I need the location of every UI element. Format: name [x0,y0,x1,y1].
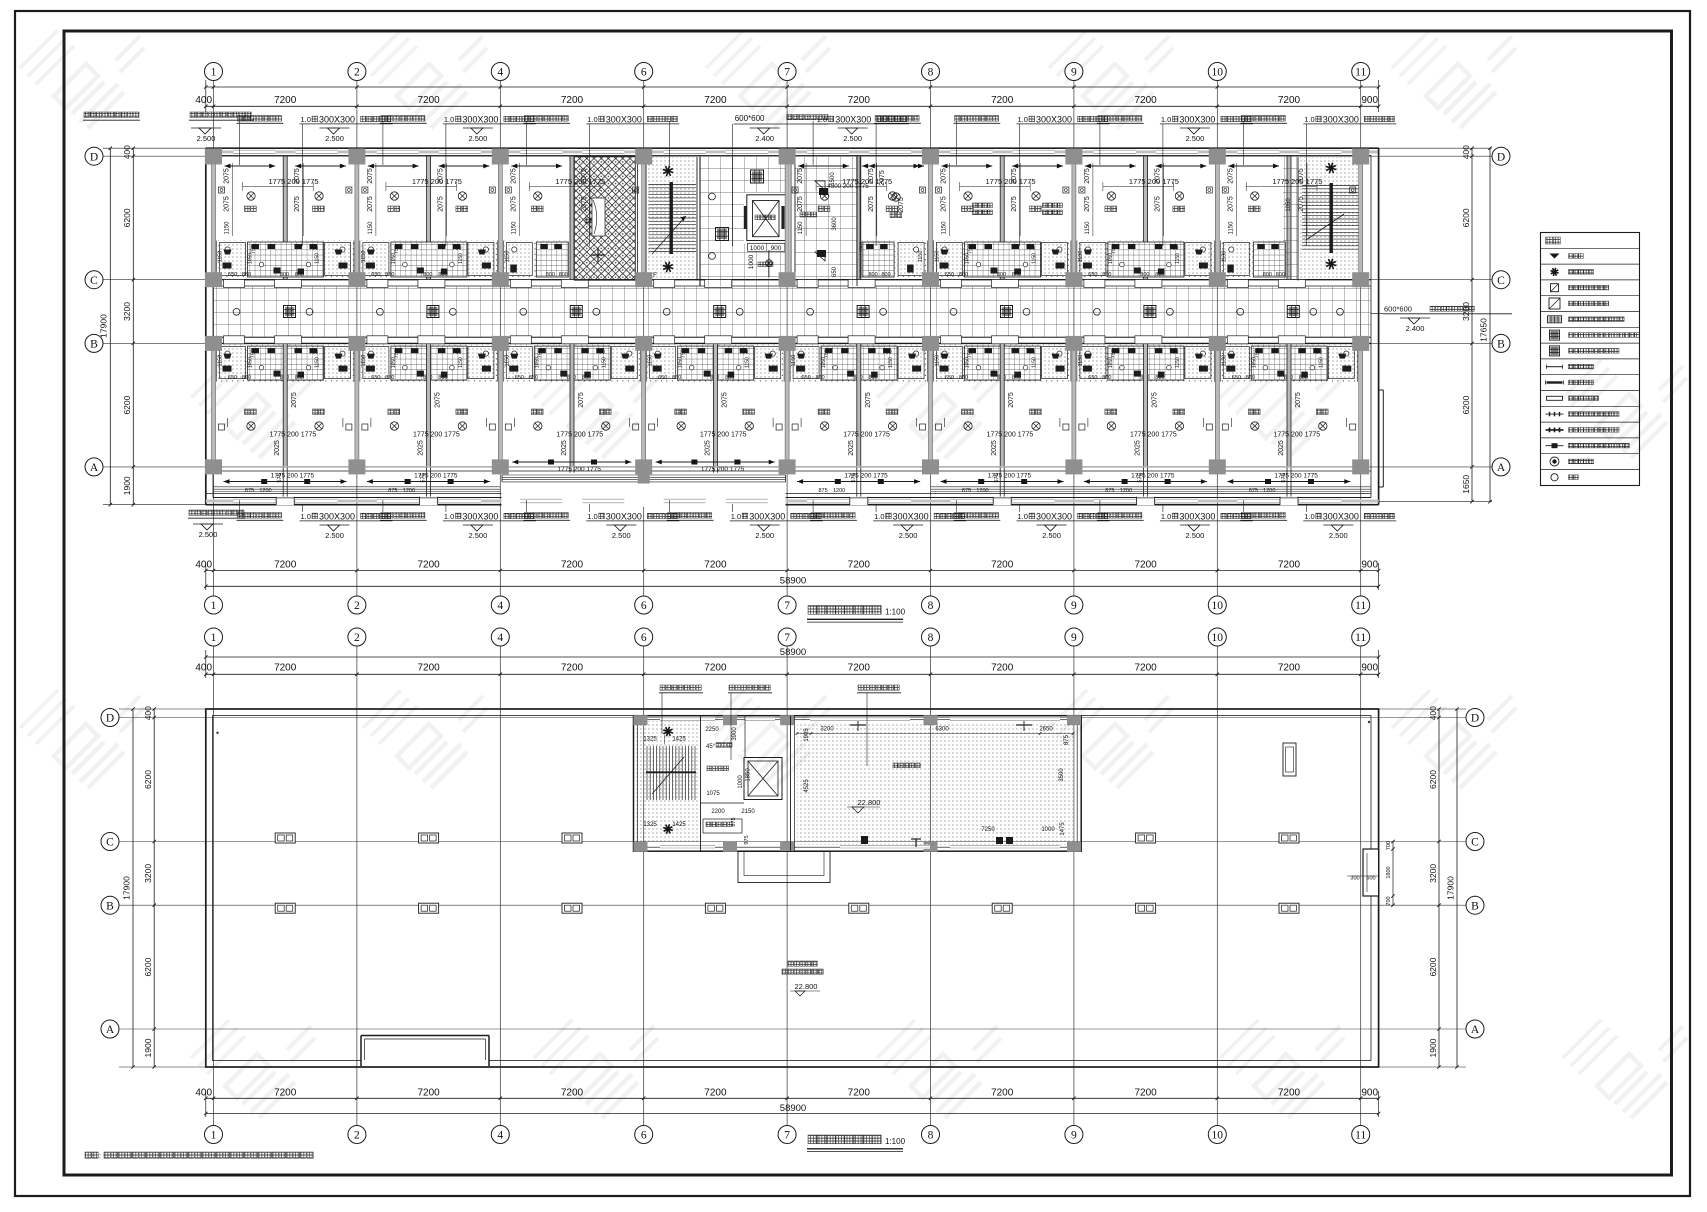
legend row 4 [1549,298,1560,309]
top band bay 7-8: laundry tiles + room [795,157,857,286]
svg-text:2025: 2025 [274,440,281,456]
legend table [1541,233,1640,486]
svg-text:6: 6 [641,632,647,644]
svg-text:11: 11 [1355,600,1366,612]
svg-text:11: 11 [1355,1130,1366,1142]
svg-text:800: 800 [1263,272,1272,278]
svg-text:600*600: 600*600 [735,114,765,123]
bottom room divider wall [857,344,861,466]
balcony dividers and dims [1286,468,1288,498]
svg-text:1.0: 1.0 [1304,115,1314,124]
svg-text:200 1775: 200 1775 [429,473,458,480]
svg-text:875: 875 [245,488,254,494]
room divider wall [427,157,431,280]
svg-text:7200: 7200 [417,95,440,106]
svg-text:2.500: 2.500 [612,531,631,540]
stair treads [649,184,697,186]
balcony dividers and dims [282,468,284,498]
room divider wall [857,157,861,280]
svg-text:2025: 2025 [991,440,998,456]
svg-text:1150: 1150 [218,251,224,263]
top plan right wall step [1379,389,1384,391]
svg-text:8: 8 [928,632,934,644]
svg-text:800: 800 [295,272,304,278]
penthouse big room (roofed hall) [797,722,1073,845]
svg-text:800: 800 [1012,375,1021,381]
svg-text:750: 750 [1169,350,1178,356]
svg-text:875: 875 [962,488,971,494]
svg-text:650: 650 [945,375,954,381]
svg-text:1150: 1150 [218,355,224,367]
svg-text:2025: 2025 [1278,440,1285,456]
bottom room divider wall [570,344,574,466]
svg-text:2075: 2075 [1011,168,1018,184]
svg-text:1.0: 1.0 [301,115,311,124]
svg-text:1150: 1150 [745,357,751,368]
svg-text:1.0: 1.0 [444,512,454,521]
svg-text:575: 575 [277,473,283,482]
svg-text:1200: 1200 [1120,488,1132,494]
svg-text:1150: 1150 [504,251,510,263]
svg-text:2075: 2075 [1295,392,1302,408]
room lamps [820,192,828,200]
svg-text:D: D [106,713,114,725]
svg-text:200 1775: 200 1775 [1002,473,1031,480]
svg-text:B: B [106,900,114,912]
svg-text:A: A [90,462,99,474]
svg-text:200 1775: 200 1775 [285,177,318,186]
svg-text:2250: 2250 [705,727,719,733]
room ceiling arrows [225,165,276,167]
svg-text:3600: 3600 [832,217,838,231]
svg-text:300X300: 300X300 [1036,114,1072,124]
svg-text:D: D [1497,151,1505,163]
corridor door openings [224,280,245,288]
title: floors 3-6 ceiling plan [808,606,881,615]
penthouse stairwell [636,721,698,844]
svg-text:1.0: 1.0 [1304,512,1314,521]
svg-text:1150: 1150 [1085,221,1091,235]
svg-text:400: 400 [1428,706,1438,720]
svg-text:300X300: 300X300 [1179,511,1215,521]
legend row 14 [1550,457,1559,466]
svg-text:C: C [1471,837,1479,849]
room lamps [534,192,542,200]
bay 7-8 right half room [892,193,900,201]
bottom room divider wall [713,344,717,466]
svg-text:3500: 3500 [1059,768,1065,782]
svg-text:1200: 1200 [833,488,845,494]
svg-text:2650: 2650 [1039,727,1053,733]
svg-text:200 1775: 200 1775 [1146,432,1177,439]
svg-text:750: 750 [251,245,257,254]
bottom room lamps and dims [247,422,255,430]
svg-text:3200: 3200 [820,727,834,733]
svg-text:200 1775: 200 1775 [1002,177,1035,186]
svg-text:1150: 1150 [1318,357,1324,368]
svg-text:7250: 7250 [981,827,995,833]
svg-text:7200: 7200 [417,663,440,674]
svg-text:7200: 7200 [274,95,297,106]
svg-text:7: 7 [784,67,790,79]
svg-text:860: 860 [385,375,394,381]
svg-text:200 1775: 200 1775 [1146,177,1179,186]
leader vertical lines top labels [239,121,241,165]
penthouse canopy below [738,852,830,883]
svg-text:1150: 1150 [601,357,607,368]
svg-text:750: 750 [968,245,974,254]
svg-text:2075: 2075 [294,168,301,184]
svg-text:2025: 2025 [561,440,568,456]
svg-text:2075: 2075 [1155,168,1162,184]
svg-text:750: 750 [883,350,892,356]
svg-text:800: 800 [438,375,447,381]
svg-text:1: 1 [211,67,217,79]
svg-text:45°: 45° [706,744,716,750]
svg-text:1.0: 1.0 [444,115,454,124]
svg-text:2: 2 [354,1130,360,1142]
svg-text:750: 750 [309,246,318,252]
svg-text:4500 200 1775: 4500 200 1775 [827,183,869,190]
svg-text::: : [99,1153,101,1160]
svg-text:200 1775: 200 1775 [715,466,744,473]
top plan top dim chain segment line [206,105,1379,107]
svg-text:800: 800 [869,272,878,278]
svg-text:650: 650 [658,375,667,381]
svg-text:7200: 7200 [417,1087,440,1098]
svg-text:2025: 2025 [1135,440,1142,456]
svg-text:875: 875 [1105,488,1114,494]
svg-text:2075: 2075 [294,196,301,212]
svg-text:7200: 7200 [848,95,871,106]
bottom room divider wall [1287,344,1291,466]
svg-text:A: A [1497,462,1506,474]
svg-text:750: 750 [1026,246,1035,252]
corridor light fixtures [284,306,296,318]
svg-text:860: 860 [1102,272,1111,278]
svg-text:7200: 7200 [991,95,1014,106]
svg-text:575: 575 [1281,473,1287,482]
legend row 3 [1551,284,1559,292]
svg-text:7200: 7200 [561,560,584,571]
svg-text:1775: 1775 [556,432,572,439]
svg-text:1775: 1775 [1273,432,1289,439]
svg-text:10: 10 [1212,600,1224,612]
svg-text:17900: 17900 [99,314,109,338]
door-side fixtures [219,187,225,193]
svg-text:2: 2 [354,632,360,644]
lobby fixtures [751,170,764,183]
watermark tiles [20,30,144,128]
svg-text:200 1775: 200 1775 [285,473,314,480]
svg-text:6200: 6200 [143,957,153,976]
svg-text:2075: 2075 [1084,168,1091,184]
leader labels above penthouse [660,685,701,690]
svg-text:900: 900 [1361,663,1378,674]
svg-text:200 1775: 200 1775 [715,432,746,439]
room lamps [964,192,972,200]
svg-text:7200: 7200 [274,663,297,674]
svg-text:7200: 7200 [991,663,1014,674]
svg-text:2075: 2075 [367,196,374,212]
svg-text:750: 750 [739,350,748,356]
balcony rail lines [206,493,1371,495]
svg-text:1: 1 [211,1130,217,1142]
svg-text:7200: 7200 [417,560,440,571]
svg-text:300X300: 300X300 [1323,114,1359,124]
svg-text:6: 6 [641,1130,647,1142]
svg-text:860: 860 [959,272,968,278]
balcony step notches [276,497,294,506]
svg-text:575: 575 [421,473,427,482]
top plan top dim chain total line [206,86,1379,88]
svg-text:860: 860 [816,375,825,381]
bottom room lamps and dims [677,422,685,430]
svg-text:2.500: 2.500 [1186,531,1205,540]
svg-text:200 1775: 200 1775 [859,473,888,480]
svg-text:2.500: 2.500 [1042,531,1061,540]
svg-text:1.0: 1.0 [1161,115,1171,124]
svg-text:300X300: 300X300 [749,511,785,521]
svg-text:1: 1 [211,632,217,644]
svg-text:1800: 1800 [1386,866,1392,878]
svg-text:975: 975 [744,835,750,844]
svg-text:7200: 7200 [704,560,727,571]
bottom room lamps and dims [820,422,828,430]
legend row 6 [1550,330,1560,340]
top plan bottom dim chains [206,570,1379,572]
roof outline [206,709,1379,1067]
svg-text:400: 400 [195,95,212,106]
elevator shaft [744,193,790,244]
top plan grid vertical lines [213,81,215,596]
door-side fixtures [362,187,368,193]
svg-text:1.0: 1.0 [587,512,597,521]
svg-text:600*600: 600*600 [1384,305,1412,314]
elevator machine shaft [744,758,782,800]
svg-text:2025: 2025 [848,440,855,456]
svg-text:1200: 1200 [976,488,988,494]
roof column marks rows C and B [275,833,295,843]
svg-text:2.500: 2.500 [469,531,488,540]
top plan outer walls [206,147,1379,149]
svg-text:1775: 1775 [412,177,429,186]
svg-text:575: 575 [1138,473,1144,482]
svg-text:650: 650 [228,272,237,278]
svg-text:1.0: 1.0 [1161,512,1171,521]
room divider wall [570,157,574,280]
svg-text:8: 8 [928,67,934,79]
svg-text:4525: 4525 [804,779,810,793]
svg-text:1150: 1150 [888,357,894,368]
room divider wall [1287,157,1291,280]
svg-text:9: 9 [1071,67,1077,79]
svg-text:750: 750 [537,349,543,358]
svg-text:750: 750 [596,350,605,356]
svg-text:7200: 7200 [848,663,871,674]
grid bubbles top row [205,63,223,81]
shaft door strip [592,198,605,236]
svg-text:750: 750 [968,349,974,358]
bottom plan top dim chain [206,656,1379,658]
svg-text:200 1775: 200 1775 [429,432,460,439]
svg-text:1150: 1150 [942,221,948,235]
svg-text:3200: 3200 [1428,864,1438,883]
svg-text:2.400: 2.400 [1406,324,1425,333]
svg-text:300X300: 300X300 [462,511,498,521]
penthouse columns [634,715,648,725]
svg-text:2075: 2075 [941,196,948,212]
room ceiling arrows [511,165,562,167]
svg-text:1.0: 1.0 [1018,115,1028,124]
door-side fixtures [505,187,511,193]
svg-text:300X300: 300X300 [1036,511,1072,521]
room ceiling arrows [368,165,419,167]
svg-text:750: 750 [251,349,257,358]
legend row 9 [1547,381,1563,383]
svg-text:750: 750 [1026,350,1035,356]
stair arrow [652,216,686,254]
svg-text:1775: 1775 [700,432,716,439]
roof right protrusion with mini dims [1363,849,1379,896]
svg-text:7200: 7200 [1134,560,1157,571]
svg-text:2075: 2075 [1227,196,1234,212]
svg-text:4: 4 [497,1130,503,1142]
svg-text:11: 11 [1355,632,1366,644]
svg-text:650: 650 [1088,375,1097,381]
bottom band bathroom strips [217,345,354,382]
svg-text:300X300: 300X300 [1323,511,1359,521]
svg-text:6200: 6200 [122,208,132,227]
svg-text:7200: 7200 [1134,663,1157,674]
balcony window tracks [213,486,500,488]
svg-text:6200: 6200 [1461,395,1471,414]
shaft interior marks [597,198,599,212]
svg-text:7200: 7200 [848,1087,871,1098]
svg-text:200 1775: 200 1775 [1002,432,1033,439]
svg-text:875: 875 [1064,734,1070,745]
svg-text:800: 800 [869,375,878,381]
svg-text:875: 875 [1249,488,1258,494]
corridor ceiling tile grid [214,286,1372,337]
svg-text:860: 860 [529,375,538,381]
svg-text:860: 860 [1102,375,1111,381]
top plan corridor walls [206,279,1371,281]
svg-text:750: 750 [394,349,400,358]
bottom plan row bubbles right [1466,709,1484,727]
svg-text:2075: 2075 [510,196,517,212]
svg-text:1150: 1150 [1175,357,1181,368]
svg-text:6200: 6200 [1461,208,1471,227]
top plan grid horizontal lines [103,155,1492,157]
svg-text:22.800: 22.800 [858,798,881,807]
svg-text:2075: 2075 [1084,196,1091,212]
svg-text:1150: 1150 [225,221,231,235]
svg-text:2.500: 2.500 [197,134,216,143]
room divider wall [283,157,287,280]
svg-text:1775: 1775 [413,432,429,439]
svg-text:2075: 2075 [367,168,374,184]
svg-text:1000: 1000 [738,775,744,789]
big room top dim line [797,733,1073,735]
bottom room divider wall [283,344,287,466]
bottom plan bottom dim chain [206,1097,1379,1099]
room lamps [1107,192,1115,200]
svg-text:7200: 7200 [1134,95,1157,106]
svg-text:300X300: 300X300 [893,511,929,521]
svg-text:1150: 1150 [1175,253,1181,264]
svg-text:2075: 2075 [1008,392,1015,408]
svg-text:1150: 1150 [1078,251,1084,263]
svg-text:1150: 1150 [1221,251,1227,263]
svg-text:1200: 1200 [1263,488,1275,494]
svg-text:800: 800 [546,272,555,278]
svg-text:1.0: 1.0 [731,512,741,521]
svg-text:750: 750 [824,349,830,358]
svg-text:58900: 58900 [780,576,806,587]
svg-text:4: 4 [497,600,503,612]
svg-text:650: 650 [945,272,954,278]
bottom room lamps and dims [1251,422,1259,430]
legend row 2 [1551,268,1559,276]
svg-text:2075: 2075 [868,196,875,212]
stair fans [663,166,674,177]
svg-text:A: A [1471,1024,1480,1036]
svg-text:1050: 1050 [1286,198,1292,212]
svg-text:750: 750 [1254,349,1260,358]
svg-text:7200: 7200 [561,663,584,674]
svg-text:2075: 2075 [435,392,442,408]
svg-text:800: 800 [1155,375,1164,381]
penthouse interior divider [701,802,745,804]
room lamps [247,192,255,200]
svg-text:2025: 2025 [704,440,711,456]
svg-text:8: 8 [928,1130,934,1142]
svg-text:7200: 7200 [1134,1087,1157,1098]
svg-text:3200: 3200 [143,864,153,883]
svg-text:200 1775: 200 1775 [859,432,890,439]
svg-text:2075: 2075 [438,196,445,212]
svg-text:7200: 7200 [848,560,871,571]
svg-text:575: 575 [994,473,1000,482]
svg-text:1:100: 1:100 [885,1137,906,1146]
svg-text:1775: 1775 [1130,432,1146,439]
svg-text:800: 800 [582,375,591,381]
room divider wall [1000,157,1004,280]
svg-text:2075: 2075 [898,197,905,213]
roof bottom notch [361,1036,489,1066]
elevator dims [748,243,785,251]
svg-text:1.0: 1.0 [817,115,827,124]
top band bay 6-7: stairwell [646,157,697,281]
svg-text:6200: 6200 [143,770,153,789]
svg-text:B: B [1497,339,1505,351]
svg-text:4: 4 [497,67,503,79]
svg-text:750: 750 [1111,245,1117,254]
svg-text:2.500: 2.500 [1186,134,1205,143]
right stairwell [1298,157,1364,281]
svg-text:A: A [106,1024,115,1036]
svg-text:650: 650 [228,375,237,381]
svg-text:1.0: 1.0 [587,115,597,124]
svg-text:2075: 2075 [224,196,231,212]
svg-text:1775: 1775 [270,432,286,439]
svg-text:1150: 1150 [791,355,797,367]
svg-text:1775: 1775 [269,177,286,186]
bay 8-9 room use labels [973,203,993,208]
legend header [1546,237,1561,244]
svg-text:1150: 1150 [361,251,367,263]
